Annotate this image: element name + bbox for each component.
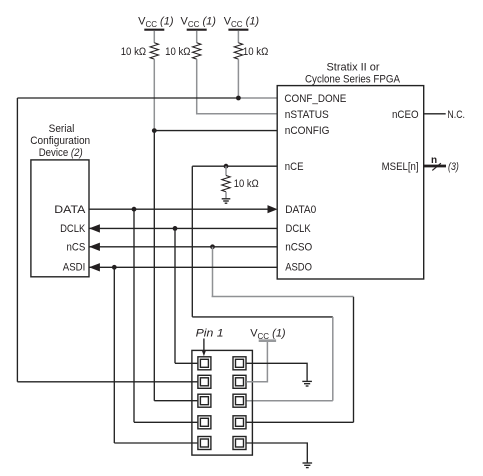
svg-text:nCEO: nCEO <box>392 109 419 121</box>
wire ASDI to ASDO <box>89 266 277 268</box>
header pin 7 (inner) <box>200 418 208 426</box>
node nCONFIG pull-up junction <box>152 128 157 133</box>
svg-text:Device (2): Device (2) <box>39 147 83 159</box>
wire vcc2 to resistor R-nSTATUS <box>196 31 198 43</box>
header pin 5 (inner) <box>200 397 208 405</box>
svg-text:Cyclone Series FPGA: Cyclone Series FPGA <box>305 74 401 86</box>
header pin 3 (inner) <box>200 378 208 386</box>
arrowhead into device nCS <box>89 243 100 251</box>
svg-text:nCONFIG: nCONFIG <box>285 125 330 137</box>
resistor 10k pull-down on nCE <box>222 176 230 192</box>
svg-text:nCSO: nCSO <box>285 241 312 253</box>
node nCE pull-down junction <box>224 164 229 169</box>
header pin 5 (outer) <box>198 394 211 407</box>
bus width slash <box>432 163 441 170</box>
wire DCLK to header pin1 <box>175 362 197 364</box>
vcc supply 2 (bar) <box>187 29 207 31</box>
resistor 10k pull-up on nSTATUS <box>193 43 201 59</box>
vcc supply 3 (bar) <box>228 29 248 31</box>
wire nCE across <box>192 316 332 318</box>
wire nCS across (gray) <box>212 296 354 298</box>
header pin 8 (inner) <box>236 418 244 426</box>
node nCS junction <box>210 244 215 249</box>
header pin 3 (outer) <box>198 375 211 388</box>
wire nCONFIG junction to FPGA <box>154 130 277 132</box>
svg-text:(3): (3) <box>448 161 459 173</box>
svg-text:Configuration: Configuration <box>30 135 90 147</box>
header pin 10 (inner) <box>236 439 244 447</box>
arrowhead into device ASDI <box>89 263 100 271</box>
svg-text:10 kΩ: 10 kΩ <box>243 46 268 58</box>
wire nCS down right side <box>353 297 355 423</box>
wire nCE from corner to FPGA <box>192 165 277 167</box>
wire DCLK <box>89 227 277 229</box>
svg-text:MSEL[n]: MSEL[n] <box>382 161 419 173</box>
wire DCLK down to header <box>174 228 176 363</box>
svg-text:10 kΩ: 10 kΩ <box>234 178 259 190</box>
wire DATA to header pin7 <box>134 421 197 423</box>
header pin 6 (outer) <box>233 394 246 407</box>
header pin 9 (inner) <box>200 439 208 447</box>
wire header pin10 to ground <box>246 443 307 463</box>
wire ASDI down to header <box>113 267 115 443</box>
header pin 8 (outer) <box>233 416 246 429</box>
svg-text:DATA0: DATA0 <box>285 204 316 216</box>
MSEL bus stub <box>424 165 446 168</box>
resistor 10k pull-up on nCONFIG <box>150 43 158 59</box>
header pin 9 (outer) <box>198 437 211 450</box>
wire DATA down to header <box>133 209 135 422</box>
svg-text:DATA: DATA <box>54 204 86 216</box>
wire nCE down right (gray) <box>332 317 334 401</box>
header pin 4 (inner) <box>236 378 244 386</box>
ground (header pin10) <box>303 463 313 468</box>
svg-text:VCC (1): VCC (1) <box>250 327 286 341</box>
wire resistor to nSTATUS corner <box>197 59 278 114</box>
header pin 2 (outer) <box>233 357 246 370</box>
svg-text:DCLK: DCLK <box>286 223 312 235</box>
wire resistor to nCONFIG junction <box>153 59 155 131</box>
node CONF_DONE pull-up junction <box>236 96 241 101</box>
wire resistor to CONF_DONE junction <box>237 59 239 98</box>
wire resistor to ground <box>225 192 227 199</box>
arrowhead into FPGA DATA0 <box>268 205 278 213</box>
wire nCS to header pin8 <box>246 421 354 423</box>
svg-text:N.C.: N.C. <box>447 109 465 121</box>
svg-text:nSTATUS: nSTATUS <box>285 109 329 121</box>
wire CONF_DONE net: header loop to pull-up junction <box>17 97 238 99</box>
wire vcc1 to resistor R-nCONFIG <box>153 31 155 43</box>
wire CONF_DONE down left side <box>16 98 18 382</box>
svg-text:10 kΩ: 10 kΩ <box>165 46 190 58</box>
svg-text:CONF_DONE: CONF_DONE <box>284 93 346 105</box>
wire vcc to header pin4 (gray) <box>246 342 267 382</box>
wire nCONFIG down to header <box>153 131 155 401</box>
header pin 4 (outer) <box>233 375 246 388</box>
svg-text:VCC (1): VCC (1) <box>180 16 216 30</box>
svg-text:nCS: nCS <box>67 241 86 253</box>
wire nCONFIG to header pin5 <box>154 400 197 402</box>
wire ASDI to header pin9 <box>114 442 197 444</box>
ground (header pin2) <box>302 381 312 386</box>
node DCLK junction <box>173 226 178 231</box>
node DATA junction <box>132 207 137 212</box>
svg-text:nCE: nCE <box>285 161 304 173</box>
ground (nCE pull-down) <box>222 199 231 203</box>
wire DATA to DATA0 <box>89 208 268 210</box>
header J1 (box) <box>192 350 253 455</box>
svg-text:VCC (1): VCC (1) <box>138 16 174 30</box>
svg-text:ASDI: ASDI <box>63 262 86 274</box>
header pin 7 (outer) <box>198 416 211 429</box>
wire header pin2 to ground <box>246 363 307 381</box>
resistor 10k pull-up on CONF_DONE <box>234 43 242 59</box>
pin 1 pointer arrow <box>203 339 205 352</box>
wire nCEO to N.C. <box>424 113 446 115</box>
FPGA U2 (box) <box>277 86 424 279</box>
wire nCS down (gray) <box>212 247 214 297</box>
header pin 1 (inner) <box>200 359 208 367</box>
header pin 6 (inner) <box>236 397 244 405</box>
wire CONF_DONE to header pin3 <box>17 381 197 383</box>
svg-text:ASDO: ASDO <box>285 262 312 274</box>
svg-text:10 kΩ: 10 kΩ <box>121 46 146 58</box>
header pin 10 (outer) <box>233 437 246 450</box>
header pin 1 (outer) <box>198 357 211 370</box>
vcc supply 1 (bar) <box>144 29 164 31</box>
wire junction to pull-down resistor <box>225 166 227 175</box>
svg-text:Stratix II or: Stratix II or <box>327 62 380 74</box>
arrowhead into device DCLK <box>89 224 100 232</box>
wire vcc3 to resistor R-CONF_DONE <box>237 31 239 43</box>
svg-text:Serial: Serial <box>49 123 75 135</box>
wire nCE to header pin6 (gray) <box>246 400 333 402</box>
node ASDI junction <box>112 265 117 270</box>
vcc supply header (bar) <box>259 339 276 342</box>
svg-text:Pin 1: Pin 1 <box>196 328 224 340</box>
svg-text:DCLK: DCLK <box>60 223 86 235</box>
svg-text:VCC (1): VCC (1) <box>224 16 260 30</box>
serial configuration device U1 (box) <box>31 160 89 277</box>
wire nCS to nCSO <box>89 246 277 248</box>
wire CONF_DONE junction to FPGA (gray) <box>238 97 277 99</box>
svg-text:n: n <box>431 155 437 166</box>
header pin 2 (inner) <box>236 359 244 367</box>
wire nCE down <box>191 166 193 317</box>
